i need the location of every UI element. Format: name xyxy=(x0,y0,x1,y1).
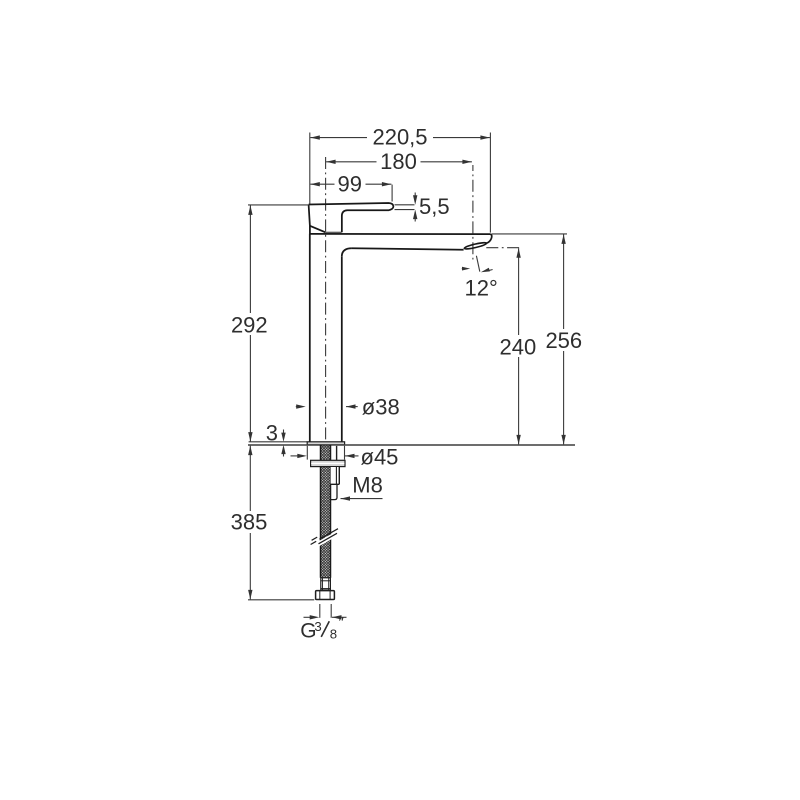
spout tip curve xyxy=(487,234,492,243)
dim 99 right arrow xyxy=(382,182,392,186)
svg-text:″: ″ xyxy=(339,614,345,631)
svg-text:ø45: ø45 xyxy=(361,444,399,469)
svg-text:220,5: 220,5 xyxy=(372,125,427,150)
outlet lens (aerator face) xyxy=(464,242,487,251)
base flange xyxy=(307,442,344,445)
dim 385 top arrow xyxy=(248,446,252,456)
dim 180 label xyxy=(377,153,421,172)
body left edge xyxy=(309,234,311,442)
flexible hose (braided, crosshatched) xyxy=(321,445,331,578)
handle left edge xyxy=(309,205,310,234)
svg-text:8: 8 xyxy=(330,626,337,641)
dim 5,5 top arrow xyxy=(414,193,416,203)
deck / mounting surface line xyxy=(248,444,575,446)
dim 292 top arrow xyxy=(248,205,252,215)
extension line right (spout tip extended up) xyxy=(489,133,491,233)
dim o45 right arrow xyxy=(345,455,359,457)
dim 292 label xyxy=(228,313,271,335)
extension line left (body left edge extended up) xyxy=(309,133,311,205)
handle base bottom edge xyxy=(325,231,341,233)
extension line G3/8 right xyxy=(330,604,332,618)
dim 220,5 label xyxy=(367,127,433,146)
extension line o45 right xyxy=(344,446,346,460)
dim 3 bottom arrow xyxy=(283,451,285,457)
svg-text:385: 385 xyxy=(231,509,268,534)
svg-text:292: 292 xyxy=(231,312,268,337)
hose end nut G3/8 xyxy=(316,591,335,600)
mounting washer and nut under deck xyxy=(311,460,345,466)
dim o38 right arrow xyxy=(346,406,358,408)
dim 3 top arrow xyxy=(283,430,285,435)
svg-text:99: 99 xyxy=(338,172,362,197)
body top / spout top line xyxy=(309,233,491,235)
svg-text:256: 256 xyxy=(545,328,582,353)
body right edge xyxy=(341,256,343,442)
svg-text:ø38: ø38 xyxy=(362,394,400,419)
dim 292 bottom arrow xyxy=(248,432,252,442)
handle lever outline xyxy=(309,203,394,232)
extension line flange top xyxy=(249,441,308,443)
extension line from spout tip to 256 xyxy=(492,233,567,235)
dim 180 left arrow xyxy=(326,160,336,164)
dim 5,5 upper tick line xyxy=(395,204,415,206)
extension line hose bottom xyxy=(248,599,314,601)
dim o38 left arrow xyxy=(296,406,299,408)
dim 256 label xyxy=(544,329,585,351)
12 degree right arrow xyxy=(488,270,493,271)
M8 threaded rod upper part xyxy=(331,467,340,484)
dim 5,5 lower tick line xyxy=(395,209,415,211)
dim 292 line xyxy=(249,205,251,441)
spout-body fillet xyxy=(342,248,352,256)
dim 240 label xyxy=(498,335,539,357)
handle chamfer line xyxy=(310,226,326,233)
M8 threaded rod lower part xyxy=(331,484,340,499)
dim 240 line xyxy=(518,248,520,444)
dim 220,5 left arrow xyxy=(310,135,320,139)
spout bottom line xyxy=(352,248,464,250)
hose end ferrule xyxy=(321,578,331,590)
dim 180 line xyxy=(326,161,472,163)
dim 180 right arrow xyxy=(462,160,472,164)
dim 256 top arrow xyxy=(561,234,565,244)
handle base shade band xyxy=(325,233,341,234)
hose break symbol xyxy=(311,529,338,545)
dim o45 left arrow xyxy=(291,455,298,457)
extension dash-dot from outlet to 240 xyxy=(486,247,521,249)
dim 256 line xyxy=(563,234,565,444)
svg-text:240: 240 xyxy=(500,335,537,360)
dim 5,5 bottom arrow xyxy=(414,212,416,221)
dim 220,5 line xyxy=(310,137,490,139)
dim 99 line xyxy=(310,183,391,185)
svg-text:180: 180 xyxy=(380,149,417,174)
dim 385 bottom arrow xyxy=(248,590,252,600)
dim 99 left arrow xyxy=(310,182,320,186)
extension line 292 top xyxy=(248,204,309,206)
svg-text:5,5: 5,5 xyxy=(419,194,450,219)
dim 385 line xyxy=(249,446,251,600)
dim 240 top arrow xyxy=(516,248,520,258)
extension line G3/8 left xyxy=(319,604,321,618)
dim 256 bottom arrow xyxy=(561,435,565,445)
extension line o45 left xyxy=(306,446,308,460)
dim G3/8 left arrow xyxy=(304,616,311,618)
dim 99 label xyxy=(335,175,366,193)
12 degree left arrow xyxy=(462,268,464,270)
threaded shank right of hose xyxy=(331,446,337,460)
centerline of outlet (vertical dash-dot through spout tip) xyxy=(472,165,474,261)
dim G3/8 right arrow xyxy=(332,616,347,618)
12 degree construction line xyxy=(476,256,479,272)
dim 220,5 right arrow xyxy=(480,135,490,139)
svg-text:M8: M8 xyxy=(352,473,383,498)
centerline of body (vertical dash-dot) xyxy=(325,157,327,445)
dim 240 bottom arrow xyxy=(516,435,520,445)
extension line handle tip xyxy=(391,185,393,202)
dim 385 label xyxy=(229,511,272,533)
dim M8 leader arrow xyxy=(341,498,383,500)
svg-text:3: 3 xyxy=(314,619,321,634)
svg-text:12°: 12° xyxy=(465,276,498,301)
